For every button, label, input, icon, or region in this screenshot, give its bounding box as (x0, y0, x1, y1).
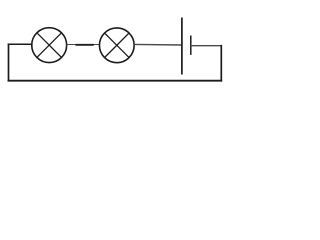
lamp L1 (circle with X) (32, 28, 67, 63)
wire: lamp 1 to lamp 2, thin segment (67, 44, 100, 46)
wire: right vertical side (220, 46, 222, 81)
wire: top-left horizontal to lamp 1 (9, 43, 32, 45)
lamp L2 (circle with X) (99, 28, 134, 63)
wire: cell negative plate to top-right corner (191, 45, 222, 47)
wire: lamp 1 to lamp 2, thick overlapping segment (76, 44, 94, 46)
wire: left vertical side (8, 44, 10, 80)
wire: lamp 2 to cell positive plate (134, 43, 182, 46)
cell: short negative plate (190, 36, 192, 55)
cell: long positive plate (181, 18, 183, 75)
wire: bottom return (9, 80, 222, 82)
